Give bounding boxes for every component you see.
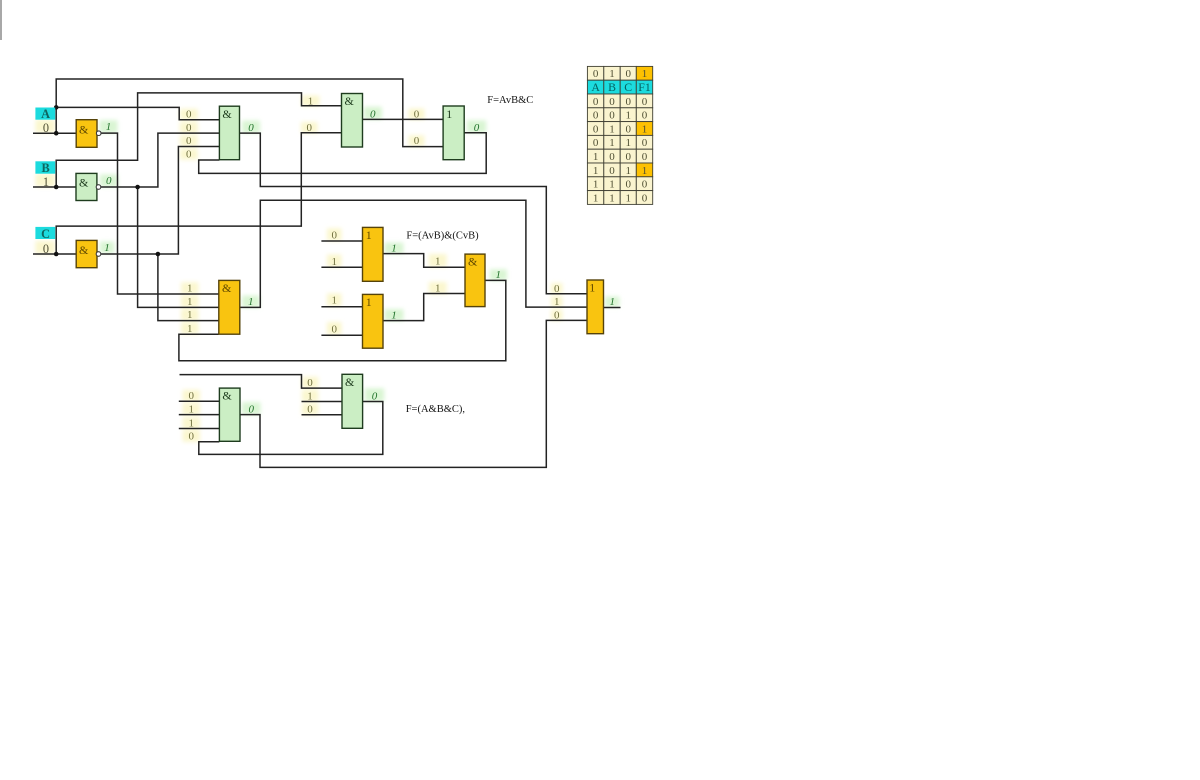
wire net AND5out — [240, 320, 587, 467]
svg-text:F1: F1 — [638, 80, 651, 94]
wire net notA — [99, 133, 219, 294]
svg-text:&: & — [345, 94, 355, 108]
svg-text:1: 1 — [642, 165, 648, 177]
svg-text:1: 1 — [187, 309, 193, 321]
output label box U10 — [365, 388, 384, 401]
svg-text:&: & — [222, 107, 232, 121]
input label boxes U4 pins 1-2 — [409, 109, 425, 120]
wire net AND6out — [199, 402, 383, 455]
svg-text:0: 0 — [331, 323, 337, 335]
svg-text:0: 0 — [593, 123, 599, 135]
truth table row 10 — [587, 191, 603, 205]
and gate U5 (4-input) — [219, 280, 240, 334]
svg-text:0: 0 — [593, 137, 599, 149]
wire net OR3out — [383, 294, 465, 321]
svg-text:1: 1 — [609, 123, 615, 135]
input label boxes U5 pins 1-4 — [181, 282, 199, 294]
svg-text:0: 0 — [642, 137, 648, 149]
svg-text:1: 1 — [187, 323, 193, 335]
svg-text:0: 0 — [625, 151, 631, 163]
svg-text:0: 0 — [593, 110, 599, 122]
input label boxes U8 pins 1-2 — [429, 254, 447, 267]
output label box NOT-C — [100, 242, 115, 254]
svg-text:1: 1 — [43, 175, 49, 189]
truth table — [587, 66, 652, 204]
svg-text:0: 0 — [609, 165, 615, 177]
svg-text:F=(A&B&C),: F=(A&B&C), — [406, 404, 465, 415]
svg-text:1: 1 — [188, 417, 194, 429]
svg-text:1: 1 — [642, 68, 648, 80]
svg-text:1: 1 — [593, 179, 599, 191]
svg-text:1: 1 — [609, 68, 615, 80]
input B cyan box — [35, 161, 55, 173]
svg-text:1: 1 — [308, 95, 314, 107]
svg-text:0: 0 — [188, 390, 194, 402]
svg-text:0: 0 — [554, 310, 560, 322]
svg-text:1: 1 — [589, 281, 595, 295]
svg-text:C: C — [624, 80, 632, 94]
output label box U9 — [242, 402, 261, 414]
svg-text:0: 0 — [307, 404, 313, 416]
wire net B — [33, 186, 76, 188]
svg-text:1: 1 — [106, 121, 112, 133]
svg-text:0: 0 — [307, 377, 313, 389]
svg-text:F=(AvB)&(CvB): F=(AvB)&(CvB) — [406, 231, 479, 242]
wire OR2 input 2 — [321, 266, 362, 268]
truth table row 4 — [587, 108, 603, 122]
svg-text:0: 0 — [188, 430, 194, 442]
svg-text:&: & — [79, 175, 89, 189]
inverter U1a (NOT A) — [76, 120, 97, 148]
inverter U1b (NOT B) — [76, 173, 97, 200]
or gate U4 — [443, 106, 464, 160]
output label box U7 — [385, 309, 404, 320]
output label box NOT-B — [100, 174, 118, 187]
svg-text:0: 0 — [248, 404, 254, 416]
svg-text:0: 0 — [642, 192, 648, 204]
svg-text:0: 0 — [106, 175, 112, 187]
svg-text:&: & — [468, 255, 478, 269]
or gate U11 (output) — [587, 280, 604, 334]
svg-text:1: 1 — [104, 242, 110, 254]
wire net A3out — [363, 118, 444, 120]
value label box C=0 — [35, 241, 55, 254]
svg-text:0: 0 — [414, 135, 420, 147]
and gate U10 — [342, 374, 363, 428]
svg-text:0: 0 — [642, 96, 648, 108]
svg-text:1: 1 — [307, 390, 313, 402]
truth table row 8 — [587, 163, 603, 177]
svg-text:F=AvB&C: F=AvB&C — [487, 95, 533, 106]
wire OR2 input 1 — [321, 240, 362, 242]
and gate U8 — [465, 254, 485, 307]
input C cyan box — [35, 227, 55, 239]
svg-text:0: 0 — [186, 109, 192, 121]
svg-text:0: 0 — [186, 149, 192, 161]
wire net A2out — [240, 133, 588, 294]
svg-text:1: 1 — [391, 242, 397, 254]
svg-text:0: 0 — [625, 96, 631, 108]
svg-text:0: 0 — [625, 179, 631, 191]
wire AND6 input 2 — [302, 401, 343, 403]
wire OR3 input 1 — [321, 306, 362, 308]
svg-text:1: 1 — [366, 295, 372, 309]
svg-text:0: 0 — [609, 151, 615, 163]
truth table row 2 — [587, 80, 603, 94]
input label boxes U6 pins 1-2 — [327, 228, 342, 241]
svg-text:0: 0 — [43, 242, 49, 256]
value label box B=1 — [35, 174, 55, 187]
and gate U3 — [342, 94, 363, 148]
svg-text:0: 0 — [306, 122, 312, 134]
svg-text:1: 1 — [625, 165, 631, 177]
svg-text:0: 0 — [370, 108, 376, 120]
node A junction dots — [54, 105, 59, 110]
output label box NOT-A — [100, 120, 118, 133]
wire AND6 input 3 — [302, 414, 343, 416]
svg-text:0: 0 — [186, 122, 192, 134]
wire net C — [33, 253, 76, 255]
svg-text:1: 1 — [625, 110, 631, 122]
truth table row 3 — [587, 94, 603, 108]
output label box U3 — [364, 107, 382, 120]
svg-text:1: 1 — [331, 295, 337, 307]
svg-text:0: 0 — [372, 390, 378, 402]
input A cyan box — [35, 108, 55, 120]
svg-text:&: & — [345, 375, 355, 389]
output label box U11 — [605, 297, 620, 308]
svg-text:&: & — [222, 389, 232, 403]
svg-text:0: 0 — [248, 122, 254, 134]
svg-text:1: 1 — [609, 137, 615, 149]
output label box U5 — [242, 296, 260, 308]
truth table row 6 — [587, 135, 603, 149]
svg-text:0: 0 — [625, 68, 631, 80]
svg-text:&: & — [79, 123, 89, 137]
output label box U6 — [385, 243, 404, 254]
wire AND5 input 1 — [179, 400, 220, 402]
input label boxes U3 pins 1-2 — [302, 96, 320, 107]
wire net notC — [99, 147, 219, 255]
svg-text:1: 1 — [593, 151, 599, 163]
svg-text:1: 1 — [331, 256, 337, 268]
node notC junction dot — [156, 252, 161, 257]
soft label boxes — [35, 96, 619, 442]
truth table row 5 — [587, 122, 603, 136]
svg-text:A: A — [41, 107, 50, 121]
window border artifact — [0, 0, 2, 40]
truth table row 7 — [587, 149, 603, 163]
svg-text:1: 1 — [609, 192, 615, 204]
svg-text:1: 1 — [366, 228, 372, 242]
svg-text:0: 0 — [609, 110, 615, 122]
or gate U7 — [363, 294, 384, 348]
inverter U1c (NOT C) — [76, 240, 97, 267]
svg-text:1: 1 — [609, 179, 615, 191]
input label boxes U11 pins 1-3 — [551, 283, 563, 294]
svg-text:1: 1 — [609, 296, 615, 308]
svg-text:B: B — [608, 80, 616, 94]
svg-text:0: 0 — [186, 135, 192, 147]
input label boxes U9 pins 1-4 — [183, 390, 201, 402]
svg-text:&: & — [79, 243, 89, 257]
wire net A — [33, 132, 76, 134]
svg-text:0: 0 — [593, 68, 599, 80]
svg-text:0: 0 — [642, 151, 648, 163]
svg-text:0: 0 — [43, 121, 49, 135]
svg-text:1: 1 — [187, 296, 193, 308]
svg-text:B: B — [41, 161, 49, 175]
wire net OR1out feedback — [199, 133, 487, 174]
wire AND6 input 1 — [180, 375, 343, 389]
svg-text:0: 0 — [554, 283, 560, 295]
svg-text:1: 1 — [496, 269, 502, 281]
and gate U2 (4-input) — [219, 106, 239, 160]
svg-text:1: 1 — [625, 192, 631, 204]
wire AND5 input 2 — [179, 414, 220, 416]
output label box U2 — [242, 121, 260, 134]
svg-text:1: 1 — [187, 283, 193, 295]
wire net OR2out — [383, 254, 465, 268]
svg-text:0: 0 — [593, 96, 599, 108]
and gate U9 (4-input) — [219, 388, 240, 441]
svg-text:A: A — [591, 80, 600, 94]
svg-text:1: 1 — [248, 296, 254, 308]
svg-text:0: 0 — [642, 110, 648, 122]
wire net A5out — [179, 280, 506, 360]
wire AND5 input 3 — [179, 428, 220, 430]
svg-text:1: 1 — [554, 296, 560, 308]
input label boxes U7 pins 1-2 — [327, 293, 342, 306]
truth table row 1 — [587, 66, 603, 80]
wire net OR4out — [604, 307, 621, 309]
svg-text:0: 0 — [642, 179, 648, 191]
svg-text:1: 1 — [593, 165, 599, 177]
value label box A=0 — [35, 120, 55, 133]
svg-text:1: 1 — [391, 309, 397, 321]
svg-text:1: 1 — [435, 282, 441, 294]
svg-text:0: 0 — [625, 123, 631, 135]
svg-text:&: & — [222, 281, 232, 295]
node notB junction dot — [135, 185, 140, 190]
svg-text:1: 1 — [642, 123, 648, 135]
wire net A4out — [240, 200, 587, 307]
or gate U6 — [363, 227, 384, 281]
input label boxes U2 pins 1-4 — [180, 109, 198, 120]
svg-text:1: 1 — [625, 137, 631, 149]
node C junction dot — [54, 252, 59, 257]
svg-text:0: 0 — [474, 122, 480, 134]
svg-text:1: 1 — [188, 403, 194, 415]
svg-text:0: 0 — [331, 230, 337, 242]
svg-text:0: 0 — [609, 96, 615, 108]
wire net notB — [99, 133, 219, 187]
truth table row 9 — [587, 177, 603, 191]
svg-text:1: 1 — [435, 256, 441, 268]
output label box U8 — [490, 269, 507, 280]
svg-text:1: 1 — [593, 192, 599, 204]
wire OR3 input 2 — [321, 334, 362, 336]
input label boxes U10 pins 1-3 — [302, 377, 319, 388]
svg-text:0: 0 — [414, 108, 420, 120]
svg-text:1: 1 — [446, 107, 452, 121]
svg-text:C: C — [41, 227, 50, 241]
output label box U4 — [467, 120, 486, 133]
node B junction dot — [54, 185, 59, 190]
